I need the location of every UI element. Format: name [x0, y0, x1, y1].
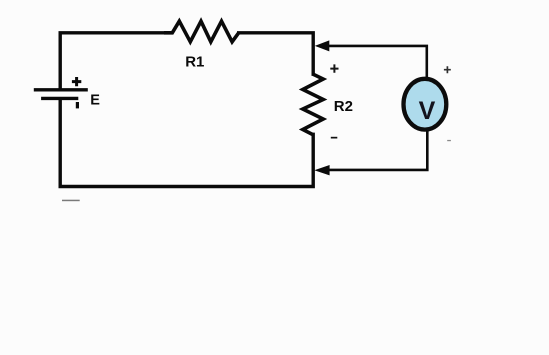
svg-text:R2: R2	[334, 98, 353, 115]
svg-text:E: E	[90, 93, 100, 109]
svg-text:V: V	[419, 97, 436, 125]
svg-text:R1: R1	[185, 54, 204, 71]
